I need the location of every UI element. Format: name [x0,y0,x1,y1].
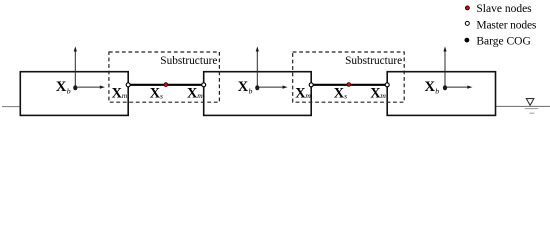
svg-text:b: b [249,86,253,95]
svg-text:Substructure: Substructure [160,55,217,67]
svg-text:X: X [56,79,67,95]
svg-text:m: m [197,91,203,100]
svg-text:Master nodes: Master nodes [476,19,537,31]
svg-text:b: b [435,86,439,95]
svg-text:m: m [380,91,386,100]
svg-text:X: X [425,79,436,95]
svg-text:Substructure: Substructure [345,55,402,67]
svg-text:b: b [67,86,71,95]
svg-text:s: s [344,92,347,101]
svg-text:Slave nodes: Slave nodes [476,3,532,15]
svg-text:m: m [122,91,128,100]
svg-text:m: m [305,91,311,100]
svg-text:X: X [238,79,249,95]
svg-text:s: s [160,92,163,101]
svg-text:Barge COG: Barge COG [476,36,530,48]
